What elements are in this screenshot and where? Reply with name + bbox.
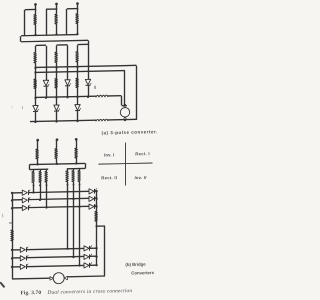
svg-text:Converters: Converters xyxy=(131,270,154,275)
svg-text:Rect. II: Rect. II xyxy=(101,175,117,180)
svg-text:Inv. I: Inv. I xyxy=(104,152,115,157)
svg-text:I: I xyxy=(11,104,12,109)
svg-text:Fig. 3.70: Fig. 3.70 xyxy=(21,290,42,296)
svg-text:(b) Bridge: (b) Bridge xyxy=(125,262,146,267)
svg-text:Rect. I: Rect. I xyxy=(135,151,150,156)
svg-text:II: II xyxy=(94,85,97,90)
svg-text:Inv. II: Inv. II xyxy=(135,175,148,180)
